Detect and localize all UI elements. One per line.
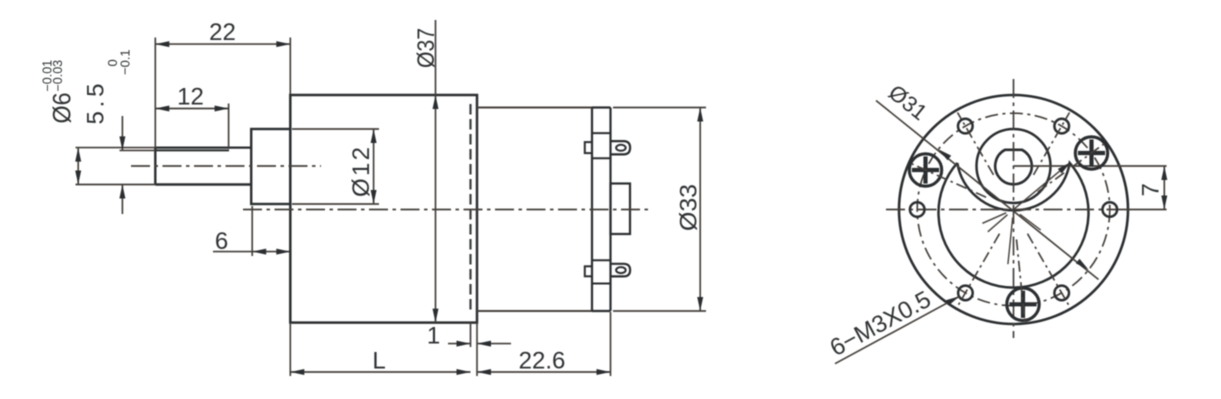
svg-text:7: 7 [1138, 183, 1165, 196]
terminal bottom tab [611, 264, 631, 277]
gearbox rectangle [290, 95, 477, 323]
dim 22.6 [477, 371, 611, 373]
dim 22 [155, 43, 290, 45]
extension line top (dia 6) [76, 147, 156, 149]
dim dia37 [435, 20, 437, 323]
motor top line [477, 107, 592, 109]
extension x=610.5 below motor [610, 312, 612, 376]
mounting hole at 60 deg [1054, 286, 1069, 301]
terminal bottom hole [616, 267, 626, 273]
terminal top tab [611, 141, 631, 154]
svg-text:−0.1: −0.1 [118, 49, 133, 75]
radial centerline for hole 240 deg [958, 113, 994, 175]
label dia33 rotated [676, 184, 703, 231]
rear bushing [611, 184, 631, 235]
vertical centerline [1013, 79, 1015, 338]
dim L [290, 371, 470, 373]
terminal top crimp [585, 142, 592, 153]
svg-text:Ø33: Ø33 [676, 184, 703, 231]
svg-text:5.5: 5.5 [83, 84, 110, 125]
construction ray 95.8 deg [1008, 218, 1013, 265]
svg-text:12: 12 [177, 84, 204, 111]
screw 1 circle [909, 154, 941, 186]
extension line x=155.3 above shaft [154, 38, 156, 148]
label dia31 rotated [884, 80, 932, 126]
screw 3 circle [1007, 288, 1039, 320]
dim dia6 line with arrows [77, 148, 79, 185]
mounting hole at 240 deg [958, 119, 973, 134]
shaft tip edge [154, 148, 156, 185]
svg-text:Ø6: Ø6 [49, 93, 77, 124]
end cap strip right [609, 108, 611, 312]
terminal top hole [616, 145, 626, 151]
dim 1 (outside arrows) [448, 343, 471, 345]
dim 6 [213, 251, 290, 253]
label dia12 rotated [348, 147, 375, 197]
label dia6 -0.01/-0.03 (rotated) [41, 60, 77, 124]
label dia37 rotated [413, 28, 440, 68]
mounting hole at 120 deg [958, 286, 973, 301]
construction ray 139 deg [988, 215, 1008, 232]
svg-text:L: L [372, 348, 385, 375]
shaft circle dia6 with D-flat [995, 150, 1032, 185]
shaft bottom line [155, 183, 251, 185]
mounting hole at 0 deg [1103, 202, 1118, 217]
svg-text:−0.03: −0.03 [51, 60, 65, 92]
radial centerline for hole 120 deg [958, 234, 1000, 307]
extension line x=228.6 [228, 104, 230, 150]
dia33 extension top [613, 107, 706, 109]
extension x=470.5 below gearbox [470, 323, 472, 347]
radial centerline for hole 60 deg [1028, 234, 1070, 307]
crescent boss outline [939, 163, 1089, 288]
construction ray 37 deg [1020, 214, 1041, 230]
svg-text:22: 22 [209, 19, 236, 46]
label 7 rotated [1138, 183, 1165, 196]
front view outer circle (dia37 face) [899, 95, 1128, 324]
extension x=477 below gearbox [476, 323, 478, 376]
extension line flat (5.5) [120, 149, 156, 151]
leader 6-M3X0.5 [835, 296, 960, 363]
shaft flat edge line [155, 149, 229, 151]
hub circle dia12 [977, 129, 1051, 203]
extension x=290.3 below gearbox [289, 324, 291, 376]
screw 2 cross [1078, 151, 1105, 155]
radial centerline for hole 300 deg [1034, 113, 1070, 175]
dim 12 [155, 108, 228, 110]
dim dia12 [373, 129, 375, 204]
end cap strip left [591, 108, 593, 312]
dia33 extension bottom [613, 310, 706, 312]
dim 5.5 line with outside arrows [121, 116, 123, 150]
shaft top silhouette line [155, 147, 251, 149]
dia12 extension top [292, 128, 379, 130]
extension to 7-dim at motor axis [1110, 209, 1167, 211]
dia31 dimension line (diagonal) [876, 101, 1099, 280]
hidden line motor pilot [469, 104, 471, 314]
radial centerline for screw 1 [910, 163, 986, 197]
construction ray 156 deg [982, 213, 1006, 224]
dia12 extension bottom [292, 203, 379, 205]
screw 3 cross [1009, 302, 1036, 306]
screw 2 circle [1075, 137, 1107, 169]
motor axis centerline [243, 209, 648, 211]
terminal top box [592, 132, 611, 134]
extension line x=290.3 above gearbox [289, 38, 291, 96]
svg-text:1: 1 [427, 323, 440, 350]
svg-text:22.6: 22.6 [519, 348, 566, 375]
svg-text:Ø37: Ø37 [413, 28, 440, 68]
horizontal centerline [886, 209, 1110, 211]
svg-text:6: 6 [215, 228, 228, 255]
extension to 7-dim at shaft axis [1014, 165, 1167, 167]
boss rectangle [251, 129, 290, 204]
terminal bottom crimp [585, 266, 592, 276]
dim dia33 [699, 108, 701, 312]
mounting hole at 300 deg [1054, 119, 1069, 134]
screw 1 cross [912, 168, 939, 172]
dim 7 [1163, 166, 1165, 210]
svg-text:Ø12: Ø12 [348, 147, 375, 197]
label 5.5 0/-0.1 (rotated) [83, 49, 133, 124]
radial centerline for screw 3 [1017, 239, 1025, 322]
label 6-M3X0.5 rotated [826, 286, 936, 362]
terminal bottom box [592, 259, 611, 261]
motor bottom line [477, 310, 592, 312]
extension below boss x=252 [251, 206, 253, 256]
shaft centerline [131, 165, 321, 167]
radius pointer to crescent horn [1014, 166, 1067, 210]
radial centerline for screw 2 [1038, 143, 1105, 192]
extension line bottom [76, 184, 156, 186]
mounting hole at 180 deg [910, 202, 925, 217]
bolt circle dia31 (dash-dot) [917, 113, 1110, 306]
